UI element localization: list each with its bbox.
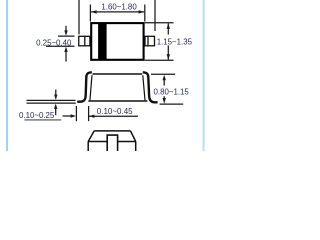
dim 1.15~1.35 dimension line upper segment bbox=[167, 24, 169, 35]
left lead tab bbox=[79, 36, 90, 46]
dim 0.10~0.25 ext line bottom bbox=[27, 102, 76, 104]
dim 1.60~1.80 ext line right bbox=[144, 5, 146, 22]
dim 0.25~0.40 ext line top bbox=[58, 35, 75, 37]
side body right edge bbox=[143, 75, 145, 100]
table border right bbox=[203, 0, 205, 151]
dim 0.10~0.45 left arrow shaft bbox=[63, 115, 73, 117]
dim 1.60~1.80 ext line left bbox=[89, 5, 91, 22]
svg-text:0.25~0.40: 0.25~0.40 bbox=[36, 38, 72, 47]
dim 0.80~1.15 ext line bottom bbox=[160, 103, 184, 105]
dim 1.15~1.35 ext line bottom bbox=[145, 59, 174, 61]
ext line left tab outer edge (cropped dim above) bbox=[78, 0, 80, 34]
dim 1.15~1.35 arrowhead up bbox=[167, 23, 170, 29]
dim 0.10~0.45 arrowhead left bbox=[89, 115, 94, 118]
dim 0.80~1.15 dimension line lower segment bbox=[163, 96, 165, 99]
dim 0.10~0.25 down-arrow shaft bbox=[55, 90, 57, 96]
dim 0.80~1.15 ext line top bbox=[151, 73, 175, 75]
table border left bbox=[6, 0, 8, 151]
dim 0.25~0.40 leader up-arrow shaft bbox=[65, 51, 67, 61]
side body top face bbox=[93, 73, 143, 75]
dim 0.25~0.40 ext line bottom bbox=[46, 45, 75, 47]
right tab inner line bbox=[147, 36, 149, 47]
dim 0.10~0.45 ext line left bbox=[75, 106, 77, 121]
side body bottom edge bbox=[88, 100, 147, 102]
svg-text:0.80~1.15: 0.80~1.15 bbox=[154, 88, 190, 97]
svg-text:0.10~0.25: 0.10~0.25 bbox=[19, 111, 55, 120]
cathode band bbox=[98, 23, 107, 60]
svg-text:1.60~1.80: 1.60~1.80 bbox=[101, 2, 137, 11]
end view front face top edge bbox=[88, 141, 136, 143]
dim 0.10~0.25 ext line top bbox=[27, 99, 76, 101]
dim 0.10~0.45 ext line right bbox=[88, 106, 90, 121]
dim 0.80~1.15 arrowhead down bbox=[163, 98, 166, 104]
dim 1.60~1.80 dimension line bbox=[91, 11, 144, 13]
ext line right tab outer edge (cropped dim above) bbox=[154, 0, 156, 31]
dim 0.80~1.15 dimension line upper segment bbox=[163, 80, 165, 86]
left tab inner line bbox=[84, 36, 86, 47]
dim 1.15~1.35 arrowhead down bbox=[167, 54, 170, 60]
end view top face bbox=[88, 131, 136, 142]
end view right side bbox=[135, 142, 137, 152]
dim 0.10~0.45 arrowhead right bbox=[71, 114, 76, 117]
dim 0.10~0.25 arrowhead down bbox=[54, 95, 57, 100]
dim 0.25~0.40 leader down-arrow shaft bbox=[65, 26, 67, 31]
svg-text:1.15~1.35: 1.15~1.35 bbox=[157, 37, 193, 46]
dim 0.25~0.40 arrowhead up bbox=[64, 47, 67, 52]
dim 0.80~1.15 arrowhead up bbox=[163, 75, 166, 81]
svg-text:0.10~0.45: 0.10~0.45 bbox=[97, 107, 133, 116]
right lead tab bbox=[145, 36, 155, 46]
end view left side bbox=[87, 142, 89, 152]
dim 0.25~0.40 arrowhead down bbox=[64, 30, 67, 35]
label 0.10~0.25 underline bbox=[25, 119, 62, 121]
top view body outline bbox=[91, 23, 143, 60]
dim 1.15~1.35 dimension line lower segment bbox=[167, 46, 169, 60]
dim 1.60~1.80 arrowhead left bbox=[91, 10, 97, 13]
dim 0.10~0.25 up-arrow shaft bbox=[55, 108, 57, 115]
dim 0.10~0.45 dimension/underline line bbox=[89, 115, 138, 117]
dim 1.15~1.35 ext line top bbox=[145, 22, 174, 24]
right gull-wing lead bbox=[143, 72, 158, 102]
left gull-wing lead bbox=[77, 72, 92, 101]
dim 0.10~0.25 arrowhead up bbox=[54, 104, 57, 109]
side body left edge bbox=[90, 75, 92, 100]
end view lead tab bbox=[107, 135, 117, 151]
dim 1.60~1.80 arrowhead right bbox=[139, 10, 145, 13]
